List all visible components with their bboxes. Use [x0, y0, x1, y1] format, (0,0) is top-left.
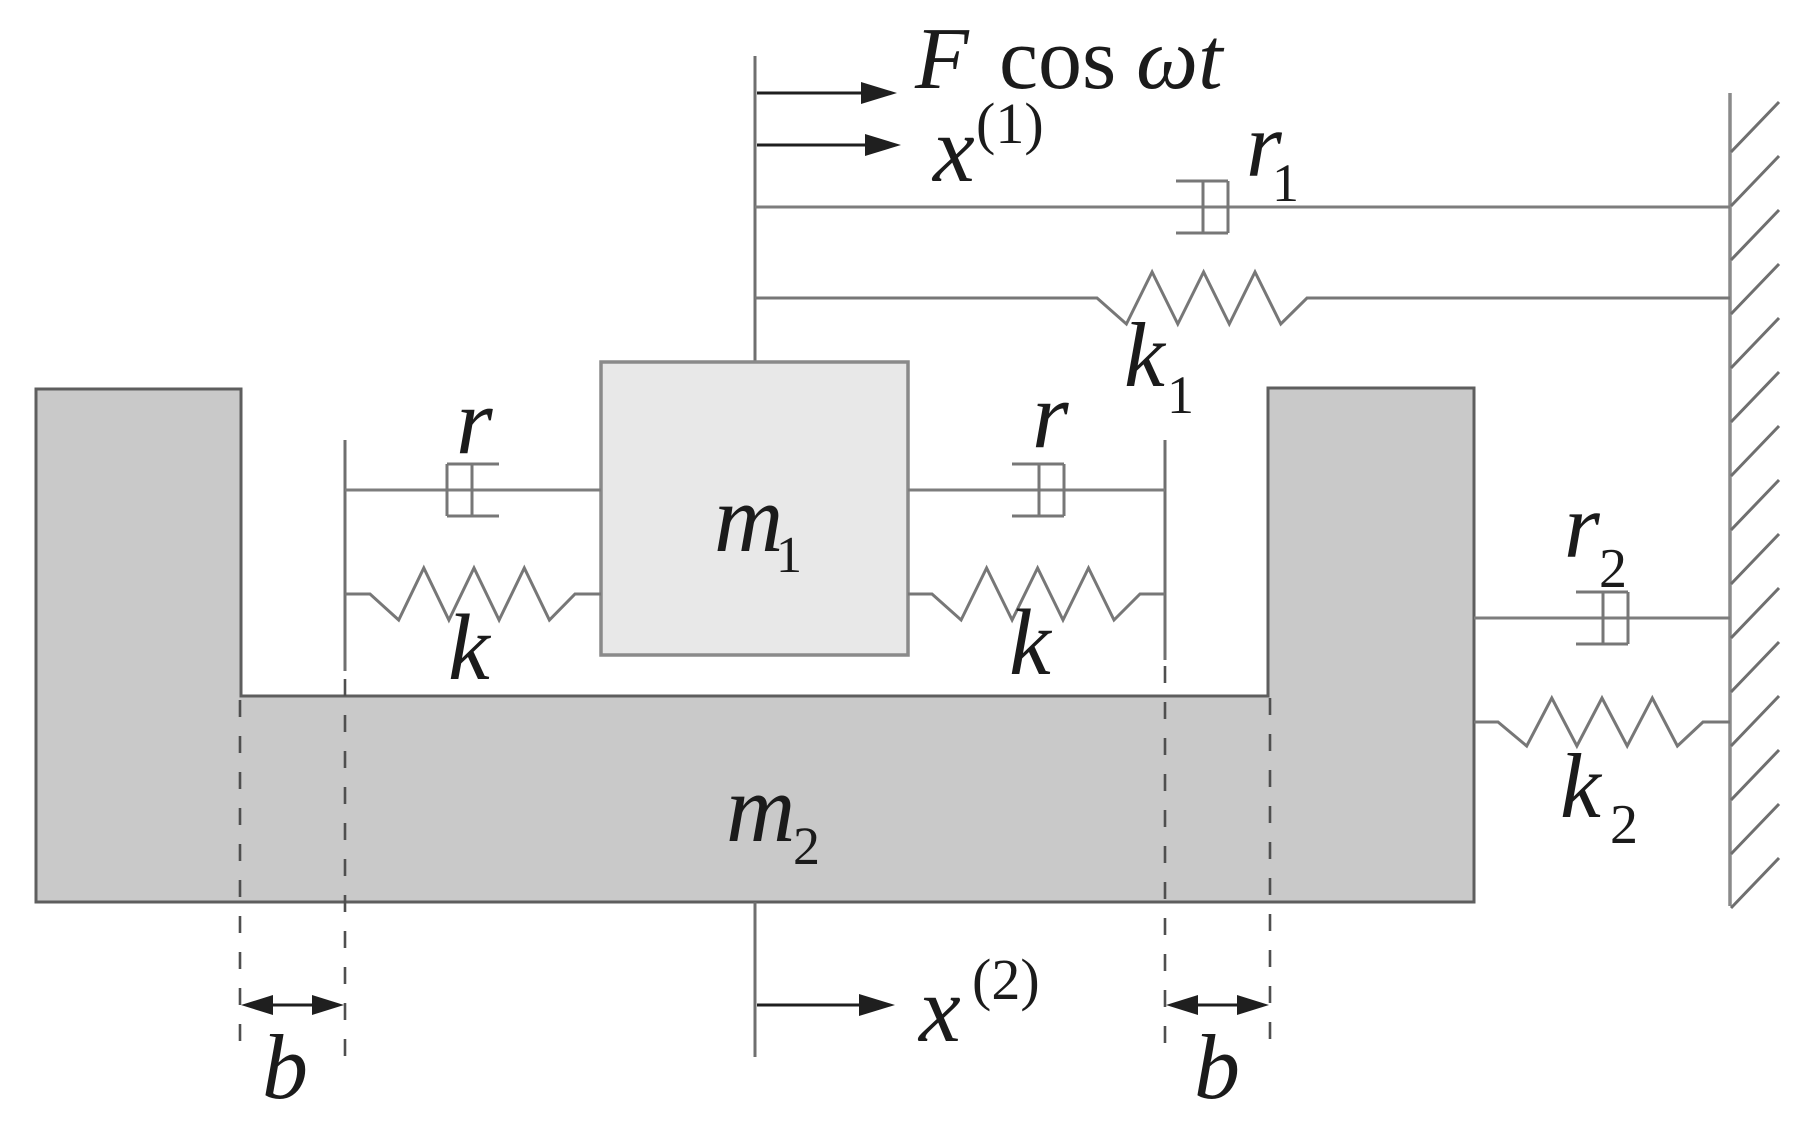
spring k right — [908, 568, 1165, 620]
wall — [1730, 93, 1779, 908]
spring k2 — [1474, 698, 1730, 746]
label r1 — [1246, 94, 1299, 213]
svg-text:r: r — [1564, 475, 1601, 577]
svg-text:x: x — [917, 958, 961, 1062]
mass m2 body — [36, 388, 1474, 902]
svg-text:(1): (1) — [976, 91, 1044, 156]
wire right damper line — [908, 489, 1165, 492]
label r right — [1032, 364, 1069, 468]
svg-text:k: k — [448, 596, 492, 700]
svg-text:r: r — [456, 370, 493, 474]
label F cos wt — [914, 11, 1225, 108]
wire damper r2 line — [1474, 617, 1730, 620]
label k left — [448, 596, 492, 700]
label k2 — [1560, 735, 1638, 856]
gap arrow b right — [1166, 995, 1269, 1015]
label b left — [262, 1016, 308, 1118]
damper r right — [1012, 464, 1064, 516]
svg-text:1: 1 — [776, 527, 802, 584]
svg-text:2: 2 — [1599, 538, 1627, 600]
displacement arrow x(1) — [757, 134, 901, 156]
svg-text:k: k — [1009, 591, 1053, 695]
svg-text:b: b — [262, 1016, 308, 1118]
damper r1 — [1176, 181, 1228, 233]
svg-text:k: k — [1124, 304, 1167, 406]
label k right — [1009, 591, 1053, 695]
svg-text:m: m — [714, 465, 783, 572]
force arrow F cos wt — [757, 82, 897, 104]
damper r left — [447, 464, 499, 516]
dashed guide line right inner — [1164, 666, 1167, 1057]
svg-text:x: x — [931, 98, 975, 202]
svg-text:Fcosωt: Fcosωt — [914, 11, 1225, 108]
label m2 — [726, 755, 820, 876]
dashed guide line right outer — [1269, 698, 1272, 1057]
spring k left — [345, 568, 601, 620]
dashed guide line left outer — [239, 700, 242, 1057]
label b right — [1194, 1016, 1240, 1118]
displacement arrow x(2) — [757, 994, 895, 1016]
spring k1 — [755, 272, 1730, 324]
label r left — [456, 370, 493, 474]
label m1 — [714, 465, 802, 584]
svg-text:b: b — [1194, 1016, 1240, 1118]
svg-text:m: m — [726, 755, 795, 862]
label k1 — [1124, 304, 1194, 425]
svg-text:r: r — [1032, 364, 1069, 468]
svg-text:2: 2 — [793, 816, 820, 876]
right anchor post wire — [1164, 440, 1167, 660]
bottom rod wire — [754, 902, 757, 1057]
damper r2 — [1576, 592, 1628, 644]
gap arrow b left — [241, 995, 344, 1015]
svg-text:(2): (2) — [972, 947, 1040, 1012]
label x(2) — [917, 947, 1040, 1062]
label x(1) — [931, 91, 1044, 202]
top drive rod wire — [754, 56, 757, 362]
svg-text:1: 1 — [1167, 365, 1194, 425]
svg-text:1: 1 — [1272, 153, 1299, 213]
label r2 — [1564, 475, 1627, 600]
wire left damper line — [345, 489, 601, 492]
left anchor post wire — [344, 440, 347, 671]
svg-text:2: 2 — [1610, 794, 1638, 856]
svg-text:k: k — [1560, 735, 1603, 837]
dashed guide line left inner — [344, 679, 347, 1057]
wire damper r1 line — [755, 206, 1730, 209]
mass m1 body — [601, 362, 908, 655]
